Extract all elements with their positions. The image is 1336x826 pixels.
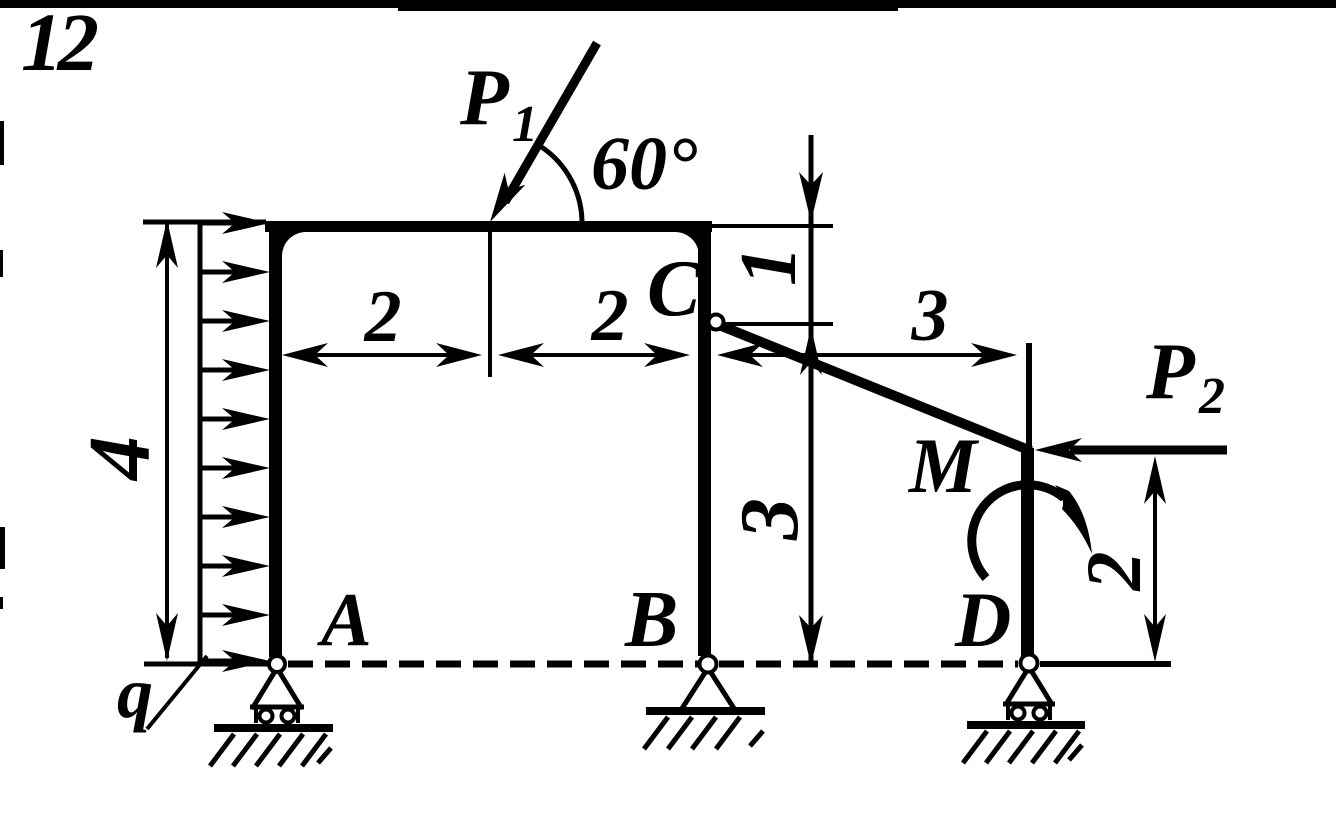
moment arc	[972, 485, 1064, 578]
svg-text:2: 2	[364, 276, 402, 358]
ground bar D	[967, 721, 1085, 729]
ground bar B	[646, 707, 765, 715]
pin D	[1021, 655, 1038, 672]
fillet top-right inner corner	[675, 232, 699, 256]
svg-text:60°: 60°	[591, 122, 697, 206]
ground hatching D	[963, 731, 987, 763]
force P1	[505, 43, 597, 202]
svg-text:2: 2	[591, 275, 629, 357]
load arrow 2	[200, 270, 238, 275]
load arrow 7	[200, 515, 238, 520]
diagonal member C-M	[719, 325, 1031, 451]
support A rollers	[254, 708, 258, 723]
middle column (B)	[698, 221, 711, 656]
svg-text:1: 1	[512, 96, 538, 153]
baseline dashed A-B	[288, 661, 698, 668]
load arrow 8	[200, 564, 238, 569]
dim 2 (A to P1)	[300, 353, 465, 357]
load arrow 9	[200, 613, 238, 618]
fillet top-left inner corner	[282, 232, 306, 256]
top beam	[265, 221, 712, 232]
baseline dashed B-D	[719, 661, 1018, 668]
distributed load baseline	[198, 222, 203, 664]
svg-text:2: 2	[1198, 368, 1225, 425]
svg-text:P: P	[1145, 328, 1196, 416]
q leader line	[147, 656, 207, 729]
extension line at D top	[1026, 343, 1032, 450]
load arrow 6	[200, 466, 238, 471]
support D triangle	[1003, 667, 1055, 706]
pin C	[709, 315, 724, 330]
support D rollers	[1006, 705, 1010, 720]
dim 3 (B to D)	[735, 353, 1000, 357]
load arrow 10	[200, 659, 238, 664]
force P2	[1070, 446, 1227, 455]
ground bar A	[214, 724, 333, 732]
svg-text:D: D	[954, 576, 1011, 663]
extension line beam level right	[712, 224, 833, 228]
load arrow 4	[200, 368, 238, 373]
baseline solid right of D	[1040, 661, 1171, 667]
svg-text:M: M	[907, 422, 980, 509]
extension line top left	[143, 220, 266, 225]
extension line C level	[724, 322, 833, 326]
ground hatching B	[644, 717, 668, 749]
vertical dim line	[809, 135, 814, 664]
pin A	[269, 656, 285, 672]
dim line 2 right	[1153, 470, 1157, 650]
svg-text:1: 1	[725, 246, 813, 286]
svg-text:3: 3	[723, 498, 816, 541]
moment arrowhead	[1055, 485, 1092, 554]
svg-text:3: 3	[911, 275, 949, 357]
svg-text:4: 4	[72, 436, 169, 482]
top scan bar	[0, 0, 1336, 8]
svg-text:A: A	[317, 578, 372, 662]
svg-text:C: C	[647, 245, 702, 333]
baseline solid left	[144, 662, 268, 667]
dim 2 (P1 to B)	[515, 353, 672, 357]
pin B	[700, 656, 717, 673]
svg-text:12: 12	[21, 0, 98, 88]
load arrow 1	[200, 221, 238, 226]
extension line under P1 point	[488, 232, 492, 377]
right column (D)	[1021, 448, 1034, 656]
ground hatching A	[210, 734, 234, 766]
left column (A)	[269, 221, 282, 657]
svg-text:2: 2	[1070, 552, 1157, 592]
svg-text:P: P	[459, 54, 510, 142]
load arrow 3	[200, 319, 238, 324]
dimension line 4	[165, 224, 169, 658]
support A triangle	[250, 668, 304, 709]
load arrow 5	[200, 417, 238, 422]
support B triangle	[681, 668, 735, 710]
60 degree arc	[535, 143, 582, 221]
svg-text:B: B	[624, 576, 678, 664]
left edge scan marks	[0, 121, 4, 165]
